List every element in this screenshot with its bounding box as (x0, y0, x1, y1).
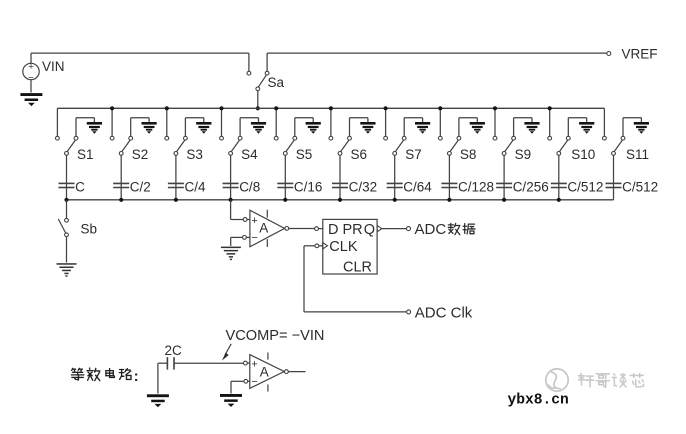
ground (2C) (147, 394, 169, 397)
wire U3 output (288, 371, 305, 373)
junction bottom bus / cap 6 (338, 198, 342, 202)
wire S5 common to capacitor (284, 155, 286, 200)
strobe ticks U3 (267, 353, 269, 360)
ground (S2) (142, 122, 157, 125)
svg-text:C/512: C/512 (622, 179, 658, 194)
wire S8 to ground (458, 118, 460, 137)
svg-text:A: A (260, 364, 269, 379)
switch S11 (603, 136, 607, 140)
node ADC data terminal (407, 227, 411, 231)
wire stub S1 to top bus (56, 108, 58, 136)
watermark logo (546, 369, 568, 391)
svg-text:Q: Q (364, 222, 375, 238)
wire stub S11 to top bus (603, 108, 605, 136)
wire VREF rail to Sa right contact (266, 53, 268, 71)
svg-text:VCOMP= −VIN: VCOMP= −VIN (226, 328, 325, 344)
arrow VCOMP to wire (225, 344, 231, 355)
svg-text:ybx8.cn: ybx8.cn (508, 393, 569, 409)
capacitor 2C (166, 357, 168, 370)
ground (S10) (579, 122, 594, 125)
svg-text:VIN: VIN (42, 59, 65, 74)
ground (S9) (524, 122, 539, 125)
switch S3 (165, 136, 169, 140)
ground (S4) (251, 122, 266, 125)
junction top bus / S4 stub (219, 106, 223, 110)
flip-flop U2 box (323, 219, 377, 274)
capacitor C/4 (168, 182, 184, 184)
junction bottom bus / cap 9 (502, 198, 506, 202)
switch S8 (438, 136, 442, 140)
junction bottom bus / cap 5 (283, 198, 287, 202)
wire bottom bus to Sb (66, 200, 68, 219)
wire 2C left plate to ground (158, 362, 168, 364)
wire S1 to ground (75, 118, 77, 137)
wire S1 common to capacitor (66, 155, 68, 200)
svg-text:S11: S11 (626, 147, 649, 162)
wire CLK to ADC Clk terminal (304, 245, 315, 247)
wire S11 common to capacitor (613, 155, 615, 200)
svg-text:S7: S7 (405, 147, 422, 162)
switch S4 (220, 136, 224, 140)
wire Q to ADC data terminal (382, 228, 407, 230)
wire Sb to ground (66, 237, 68, 263)
junction top bus / S9 stub (493, 106, 497, 110)
wire U3 - input to ground (248, 380, 250, 382)
junction top bus / S2 stub (110, 106, 114, 110)
junction bottom bus / cap 7 (393, 198, 397, 202)
op-amp U3 (comparator A equivalent) (247, 362, 250, 364)
wire S5 to ground (294, 118, 296, 137)
wire stub S7 to top bus (385, 108, 387, 136)
svg-text:S6: S6 (351, 147, 368, 162)
svg-text:VREF: VREF (622, 46, 658, 61)
wire 2C right plate to U3 + input (174, 362, 243, 364)
svg-text:S1: S1 (77, 147, 94, 162)
junction Sa/top bus (256, 106, 260, 110)
watermark xuan ge tan xin (578, 373, 593, 386)
wire S7 common to capacitor (394, 155, 396, 200)
wire S4 common to capacitor (230, 155, 232, 200)
svg-text:ADC: ADC (415, 221, 447, 238)
junction bottom bus / cap 2 (119, 198, 123, 202)
svg-text:C/32: C/32 (349, 179, 378, 194)
wire S3 to ground (184, 118, 186, 137)
junction bottom bus / cap 1 (64, 198, 68, 202)
wire stub S4 to top bus (221, 108, 223, 136)
ground (S3) (196, 122, 211, 125)
svg-text:D PR: D PR (328, 222, 363, 238)
svg-text:S9: S9 (515, 147, 532, 162)
junction top bus / S8 stub (438, 106, 442, 110)
svg-text:Sa: Sa (268, 75, 285, 90)
svg-text:CLR: CLR (343, 260, 372, 276)
junction top bus / S5 stub (274, 106, 278, 110)
svg-text:C/128: C/128 (458, 179, 494, 194)
ground (S1) (87, 122, 102, 125)
junction bottom bus / cap 4 (229, 198, 233, 202)
svg-text::: : (134, 368, 139, 385)
junction top bus / S10 stub (548, 106, 552, 110)
svg-text:Sb: Sb (81, 221, 98, 236)
svg-text:S5: S5 (296, 147, 313, 162)
wire stub S10 to top bus (549, 108, 551, 136)
junction bottom bus / cap 3 (174, 198, 178, 202)
svg-text:C/2: C/2 (130, 179, 151, 194)
ground (S11) (634, 122, 649, 125)
pin Q output arrow (377, 225, 382, 231)
capacitor C/2 (113, 182, 129, 184)
wire stub S5 to top bus (275, 108, 277, 136)
wire stub S3 to top bus (166, 108, 168, 136)
capacitor C/512 (551, 182, 567, 184)
svg-text:S2: S2 (132, 147, 149, 162)
capacitor C (59, 182, 75, 184)
switch Sa (247, 71, 251, 75)
wire bottom bus (67, 199, 614, 201)
node ADC Clk terminal (407, 310, 411, 314)
capacitor C/128 (441, 182, 457, 184)
wire S3 common to capacitor (175, 155, 177, 200)
svg-text:S3: S3 (186, 147, 203, 162)
switch S5 (274, 136, 278, 140)
junction bottom bus / cap 10 (557, 198, 561, 202)
ground (U3 - input) (220, 394, 242, 397)
svg-text:C/256: C/256 (513, 179, 549, 194)
wire S9 common to capacitor (503, 155, 505, 200)
pin CLK input (315, 244, 319, 248)
junction bottom bus / cap 8 (447, 198, 451, 202)
wire S6 to ground (349, 118, 351, 137)
strobe ticks U1 (266, 210, 268, 218)
wire stub S9 to top bus (494, 108, 496, 136)
svg-text:CLK: CLK (329, 239, 358, 255)
wire S11 to ground (622, 118, 624, 137)
ground (VIN) (20, 93, 42, 96)
switch S1 (56, 136, 60, 140)
svg-text:C/4: C/4 (185, 179, 207, 194)
wire top bus (57, 107, 604, 109)
svg-text:A: A (259, 220, 268, 235)
svg-text:+: + (251, 358, 257, 370)
wire VIN bottom to ground (30, 80, 32, 93)
svg-text:C/16: C/16 (294, 179, 323, 194)
switch S6 (329, 136, 333, 140)
label deng xiao dian lu : (71, 368, 83, 380)
ground (Sb) (57, 263, 77, 265)
switch Sb (65, 218, 69, 222)
wire stub S6 to top bus (330, 108, 332, 136)
wire VIN top to rail (30, 53, 32, 63)
capacitor C/512 (606, 182, 622, 184)
wire S10 to ground (567, 118, 569, 137)
ground (S5) (306, 122, 321, 125)
wire stub S8 to top bus (439, 108, 441, 136)
svg-text:C/8: C/8 (239, 179, 260, 194)
junction top bus / S6 stub (329, 106, 333, 110)
ground (U1 - input) (221, 247, 241, 249)
svg-text:S10: S10 (571, 147, 595, 162)
svg-text:+: + (251, 215, 257, 227)
svg-text:2C: 2C (165, 343, 183, 358)
wire U1 output to D input (289, 228, 315, 230)
junction top bus / S7 stub (384, 106, 388, 110)
ground (S7) (415, 122, 430, 125)
svg-text:−: − (251, 232, 257, 244)
pin D input (315, 227, 319, 231)
wire S2 common to capacitor (120, 155, 122, 200)
switch S10 (548, 136, 552, 140)
svg-text:S8: S8 (460, 147, 477, 162)
svg-text:−: − (251, 376, 257, 388)
svg-text:ADC Clk: ADC Clk (415, 304, 473, 321)
svg-text:C/512: C/512 (567, 179, 603, 194)
wire S2 to ground (130, 118, 132, 137)
svg-text:C/64: C/64 (403, 179, 432, 194)
capacitor C/32 (332, 182, 348, 184)
node U3 output (285, 370, 289, 374)
wire VIN rail to Sa left contact (31, 52, 249, 54)
wire bottom bus to comparator + input (230, 200, 232, 220)
capacitor C/16 (277, 182, 293, 184)
node U1 output (285, 227, 289, 231)
svg-text:C: C (75, 179, 85, 194)
capacitor C/8 (223, 182, 239, 184)
wire S4 to ground (239, 118, 241, 137)
svg-text:S4: S4 (241, 147, 258, 162)
switch S9 (493, 136, 497, 140)
node VREF terminal (607, 52, 611, 56)
wire S10 common to capacitor (558, 155, 560, 200)
wire S9 to ground (513, 118, 515, 137)
ground (S6) (360, 122, 375, 125)
op-amp U1 (comparator A) (247, 219, 250, 221)
junction top bus / S3 stub (165, 106, 169, 110)
comparator - input wire to ground (246, 236, 250, 238)
capacitor C/64 (387, 182, 403, 184)
voltage source VIN (23, 63, 39, 79)
capacitor C/256 (496, 182, 512, 184)
wire S7 to ground (403, 118, 405, 137)
wire S6 common to capacitor (339, 155, 341, 200)
ground (S8) (470, 122, 485, 125)
wire stub S2 to top bus (111, 108, 113, 136)
switch S2 (110, 136, 114, 140)
switch S7 (384, 136, 388, 140)
wire Sa common to top bus (257, 91, 259, 109)
wire S8 common to capacitor (448, 155, 450, 200)
